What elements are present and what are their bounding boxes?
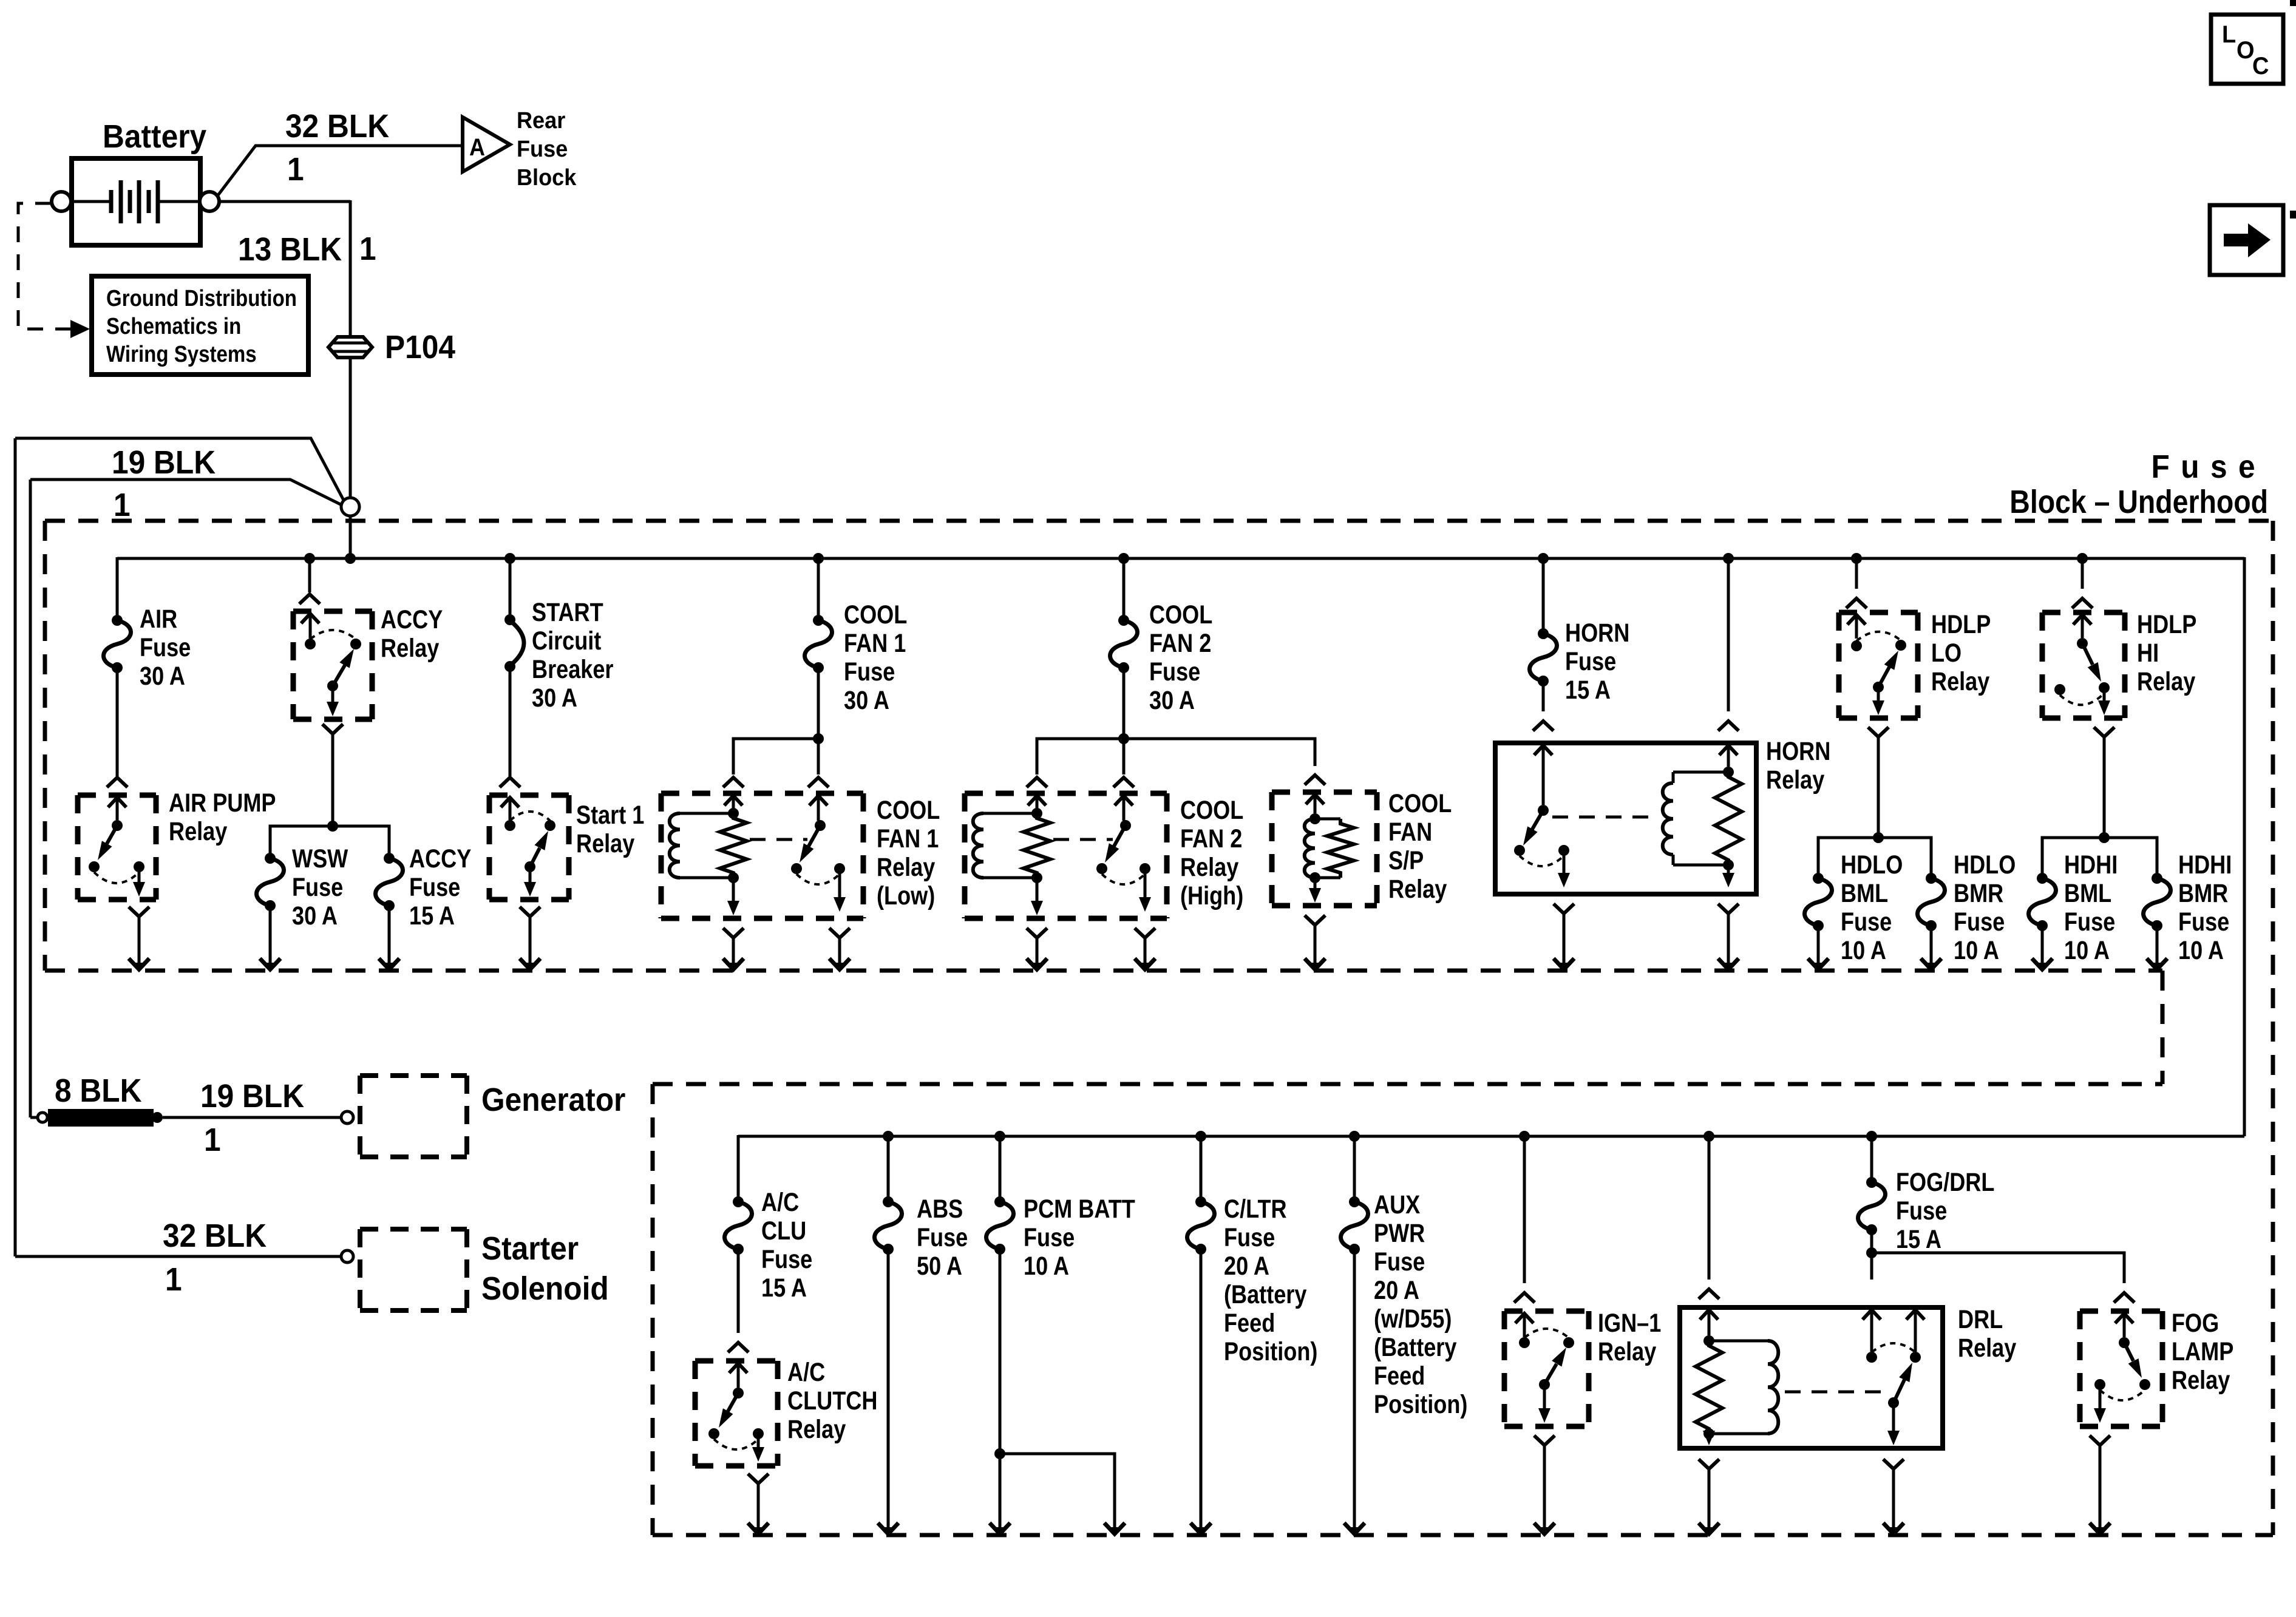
relay AIR PUMP (dashed box) bbox=[78, 795, 156, 900]
fuse HDLO BMR 10A bbox=[1917, 850, 2016, 965]
fuse COOL FAN 2 30A bbox=[1110, 600, 1212, 715]
ground distribution reference (dashed wire and arrow) bbox=[18, 203, 90, 338]
svg-text:20 A: 20 A bbox=[1374, 1276, 1419, 1305]
relay COOL FAN 1 Low (dashed box) bbox=[661, 793, 863, 918]
relay Start 1 contacts bbox=[501, 796, 644, 917]
wire A/C CLUTCH relay output bbox=[748, 1485, 769, 1534]
svg-text:30 A: 30 A bbox=[532, 683, 577, 713]
relay AIR PUMP contacts bbox=[89, 788, 276, 917]
svg-text:Fuse: Fuse bbox=[1149, 657, 1200, 686]
wire from P104 to splice bbox=[349, 358, 352, 498]
wire C/LTR fuse output bbox=[1190, 1249, 1211, 1534]
svg-text:(High): (High) bbox=[1180, 881, 1243, 910]
svg-text:Ground Distribution: Ground Distribution bbox=[106, 285, 297, 311]
svg-text:20 A: 20 A bbox=[1224, 1252, 1269, 1281]
svg-text:HDHI: HDHI bbox=[2064, 850, 2118, 880]
relay ACCY contacts bbox=[301, 605, 443, 734]
wire second run to left side bbox=[30, 480, 342, 1117]
svg-text:HDLO: HDLO bbox=[1954, 850, 2016, 880]
svg-text:8 BLK: 8 BLK bbox=[55, 1072, 142, 1108]
svg-text:30 A: 30 A bbox=[292, 901, 338, 931]
svg-text:Relay: Relay bbox=[2172, 1366, 2230, 1395]
wire PCM BATT output right bbox=[1104, 1469, 1125, 1534]
wire COOL FAN S/P relay output bbox=[1305, 926, 1325, 970]
svg-text:10 A: 10 A bbox=[2064, 936, 2110, 965]
wire HDHI BMR fuse output bbox=[2147, 926, 2167, 970]
svg-text:Relay: Relay bbox=[787, 1415, 846, 1444]
svg-text:HI: HI bbox=[2137, 639, 2159, 668]
svg-text:Block – Underhood: Block – Underhood bbox=[2009, 483, 2268, 520]
svg-text:(Battery: (Battery bbox=[1374, 1333, 1456, 1362]
relay IGN-1 contacts bbox=[1515, 1309, 1661, 1445]
svg-text:(Battery: (Battery bbox=[1224, 1280, 1306, 1309]
wire START breaker to Start 1 relay bbox=[500, 666, 520, 787]
connector ring starter bbox=[341, 1250, 353, 1263]
relay HDLP LO (dashed box) bbox=[1839, 612, 1918, 718]
relay COOL FAN S/P coil and resistor bbox=[1305, 789, 1452, 925]
svg-text:LAMP: LAMP bbox=[2172, 1337, 2233, 1366]
wire splice to fuse block bus bbox=[349, 515, 352, 558]
svg-text:HDLP: HDLP bbox=[2137, 610, 2196, 639]
svg-text:AIR: AIR bbox=[140, 605, 177, 634]
connector ring generator bbox=[341, 1111, 353, 1124]
relay IGN-1 (dashed box) bbox=[1504, 1311, 1589, 1426]
svg-text:START: START bbox=[532, 598, 603, 627]
svg-text:ACCY: ACCY bbox=[381, 605, 443, 634]
svg-text:COOL: COOL bbox=[1149, 600, 1212, 629]
svg-text:A/C: A/C bbox=[787, 1358, 825, 1387]
svg-text:Relay: Relay bbox=[1388, 875, 1447, 904]
wire bus2 to PCM BATT fuse bbox=[994, 1131, 1005, 1202]
svg-text:Fuse: Fuse bbox=[292, 873, 343, 902]
svg-text:AUX: AUX bbox=[1374, 1190, 1421, 1219]
wire bus to HORN fuse bbox=[1538, 553, 1549, 634]
svg-text:30 A: 30 A bbox=[140, 662, 185, 691]
wire bus to HORN relay coil bbox=[1718, 553, 1739, 731]
wire 13 BLK (battery feed) bbox=[219, 200, 376, 336]
wire DRL relay coil output bbox=[1699, 1470, 1719, 1534]
svg-text:ABS: ABS bbox=[917, 1195, 963, 1224]
wire HORN relay coil output bbox=[1718, 915, 1739, 970]
svg-text:(w/D55): (w/D55) bbox=[1374, 1304, 1452, 1334]
wire COOL FAN 2 relay switch output bbox=[1135, 939, 1155, 970]
svg-text:COOL: COOL bbox=[1388, 789, 1452, 818]
wire DRL relay switch output bbox=[1883, 1470, 1904, 1534]
LOC reference icon bbox=[2211, 15, 2283, 84]
svg-text:Relay: Relay bbox=[169, 817, 227, 846]
svg-text:FOG: FOG bbox=[2172, 1309, 2219, 1338]
splice 8 BLK (heavy wire) bbox=[48, 1072, 163, 1127]
svg-text:COOL: COOL bbox=[877, 796, 940, 825]
svg-text:Fuse: Fuse bbox=[1224, 1223, 1275, 1252]
svg-text:FAN 2: FAN 2 bbox=[1180, 824, 1242, 853]
svg-text:Feed: Feed bbox=[1374, 1361, 1425, 1391]
svg-text:C: C bbox=[2252, 53, 2269, 80]
svg-text:(Low): (Low) bbox=[877, 881, 935, 910]
svg-text:FAN: FAN bbox=[1388, 818, 1432, 847]
wire 32 BLK to rear fuse block bbox=[217, 107, 463, 196]
svg-text:COOL: COOL bbox=[844, 600, 907, 629]
svg-text:Fuse: Fuse bbox=[1565, 647, 1616, 676]
svg-text:Fuse: Fuse bbox=[1841, 907, 1892, 937]
svg-text:Fuse: Fuse bbox=[917, 1223, 968, 1252]
svg-text:P104: P104 bbox=[385, 328, 455, 365]
svg-text:ACCY: ACCY bbox=[409, 844, 471, 873]
wire HDLP HI relay to fuses bbox=[2042, 738, 2157, 878]
page edge tick top bbox=[2290, 0, 2296, 6]
wire 19 BLK upper run to left side bbox=[15, 438, 344, 1256]
svg-text:HORN: HORN bbox=[1565, 619, 1629, 648]
svg-text:30 A: 30 A bbox=[1149, 686, 1195, 715]
svg-text:15 A: 15 A bbox=[1896, 1225, 1941, 1254]
svg-text:HDHI: HDHI bbox=[2178, 850, 2232, 880]
svg-text:AIR PUMP: AIR PUMP bbox=[169, 788, 276, 818]
generator (dashed box) bbox=[360, 1076, 625, 1157]
svg-text:Starter: Starter bbox=[481, 1230, 579, 1266]
svg-text:BML: BML bbox=[2064, 879, 2111, 908]
svg-text:FOG/DRL: FOG/DRL bbox=[1896, 1168, 1994, 1197]
wire HORN relay switch output bbox=[1554, 915, 1574, 970]
svg-text:10 A: 10 A bbox=[1024, 1252, 1069, 1281]
wire bus to COOL FAN 1 fuse bbox=[813, 553, 824, 620]
svg-text:10 A: 10 A bbox=[2178, 936, 2224, 965]
svg-text:PWR: PWR bbox=[1374, 1219, 1425, 1248]
fuse HORN 15A bbox=[1529, 619, 1629, 705]
svg-text:BMR: BMR bbox=[1954, 879, 2003, 908]
connector A triangle to Rear Fuse Block bbox=[463, 107, 577, 190]
svg-text:15 A: 15 A bbox=[1565, 676, 1611, 705]
wire AIR PUMP relay output bbox=[129, 918, 149, 970]
relay Start 1 (dashed box) bbox=[489, 795, 569, 900]
relay COOL FAN 1 switch bbox=[750, 795, 940, 938]
inline connector P104 bbox=[328, 328, 455, 365]
svg-text:Battery: Battery bbox=[103, 118, 206, 154]
wire HORN fuse to HORN relay bbox=[1533, 681, 1554, 731]
fuse PCM BATT 10A bbox=[986, 1195, 1135, 1281]
wire bus2 to FOG/DRL fuse bbox=[1866, 1131, 1877, 1182]
wire PCM BATT output left bbox=[990, 1454, 1010, 1534]
wire HDLO BMR fuse output bbox=[1921, 926, 1941, 970]
relay COOL FAN 2 coil and resistor bbox=[973, 795, 1050, 938]
wire 19 BLK to generator bbox=[163, 1077, 340, 1158]
svg-text:10 A: 10 A bbox=[1954, 936, 1999, 965]
fuse FOG/DRL 15A bbox=[1858, 1168, 1994, 1254]
starter solenoid (dashed box) bbox=[360, 1229, 609, 1310]
wire WSW fuse output bbox=[260, 905, 280, 970]
svg-text:Fuse: Fuse bbox=[844, 657, 895, 686]
wire HDHI BML fuse output bbox=[2032, 926, 2053, 970]
wire HDLO BML fuse output bbox=[1808, 926, 1829, 970]
svg-text:1: 1 bbox=[204, 1121, 221, 1158]
wire 32 BLK to starter solenoid bbox=[15, 1217, 340, 1297]
svg-text:15 A: 15 A bbox=[761, 1273, 807, 1303]
splice S104 (open circle) bbox=[341, 498, 359, 516]
page edge tick right bbox=[2290, 211, 2296, 219]
wire COOL FAN 1 fuse to relay bbox=[723, 668, 829, 787]
svg-text:Position): Position) bbox=[1374, 1390, 1467, 1419]
relay A/C CLUTCH contacts bbox=[708, 1358, 877, 1483]
svg-text:13 BLK: 13 BLK bbox=[238, 231, 342, 267]
svg-text:Block: Block bbox=[517, 164, 577, 190]
relay HORN switch bbox=[1514, 744, 1656, 914]
relay COOL FAN 2 High (dashed box) bbox=[965, 793, 1167, 918]
svg-text:Generator: Generator bbox=[481, 1081, 625, 1117]
arrow reference icon bbox=[2210, 205, 2283, 275]
wire bus to AIR fuse bbox=[116, 557, 119, 620]
fuse COOL FAN 1 30A bbox=[804, 600, 907, 715]
bus wire lower section bbox=[738, 1135, 2244, 1138]
wire ABS fuse output bbox=[878, 1249, 898, 1534]
wire A/C CLU fuse to A/C CLUTCH relay bbox=[728, 1249, 749, 1352]
svg-text:Relay: Relay bbox=[1180, 853, 1238, 882]
svg-text:Fuse: Fuse bbox=[1896, 1196, 1947, 1225]
svg-text:Relay: Relay bbox=[1766, 765, 1824, 795]
wire PCM BATT fuse outputs bbox=[994, 1249, 1115, 1469]
svg-text:Breaker: Breaker bbox=[532, 655, 613, 684]
svg-text:1: 1 bbox=[165, 1261, 182, 1297]
svg-text:1: 1 bbox=[359, 230, 376, 266]
relay FOG LAMP contacts bbox=[2090, 1309, 2233, 1445]
svg-text:S/P: S/P bbox=[1388, 846, 1424, 875]
fuse AIR 30A bbox=[103, 605, 191, 691]
wire bus to HDLP HI relay bbox=[2072, 553, 2093, 608]
svg-text:Fuse: Fuse bbox=[517, 135, 568, 161]
fuse HDLO BML 10A bbox=[1804, 850, 1903, 965]
svg-text:Relay: Relay bbox=[2137, 667, 2195, 696]
wire COOL FAN 1 relay coil output bbox=[723, 939, 744, 970]
svg-text:Schematics in: Schematics in bbox=[106, 313, 241, 339]
relay A/C CLUTCH (dashed box) bbox=[695, 1361, 778, 1466]
svg-text:HDLO: HDLO bbox=[1841, 850, 1903, 880]
fuse ABS 50A bbox=[874, 1195, 968, 1281]
battery negative terminal bbox=[52, 192, 71, 211]
wire bus2 to DRL relay coil bbox=[1699, 1131, 1719, 1299]
svg-text:Fuse: Fuse bbox=[1374, 1247, 1425, 1276]
svg-text:BML: BML bbox=[1841, 879, 1888, 908]
relay COOL FAN 2 switch bbox=[1053, 795, 1243, 938]
svg-text:HDLP: HDLP bbox=[1931, 610, 1991, 639]
wire bus to ACCY relay bbox=[299, 553, 320, 604]
svg-text:10 A: 10 A bbox=[1841, 936, 1886, 965]
svg-text:Position): Position) bbox=[1224, 1337, 1317, 1366]
svg-text:Fuse: Fuse bbox=[761, 1245, 812, 1274]
svg-text:Fuse: Fuse bbox=[2151, 448, 2266, 484]
wire bus2 to ABS fuse bbox=[883, 1131, 894, 1202]
wire bus2 to A/C CLU fuse bbox=[737, 1135, 740, 1202]
svg-text:CLUTCH: CLUTCH bbox=[787, 1386, 877, 1415]
relay DRL (solid box) bbox=[1680, 1307, 1943, 1448]
wire Start 1 relay output bbox=[520, 918, 540, 970]
fuse C/LTR 20A bbox=[1187, 1195, 1317, 1366]
relay HDLP HI contacts bbox=[2054, 610, 2196, 737]
svg-text:A: A bbox=[469, 134, 485, 161]
wire right feed down to lower section bbox=[2243, 557, 2246, 1136]
svg-text:19 BLK: 19 BLK bbox=[112, 444, 216, 480]
battery positive terminal bbox=[200, 192, 219, 211]
svg-text:DRL: DRL bbox=[1958, 1305, 2003, 1334]
relay COOL FAN 1 coil and resistor bbox=[670, 795, 747, 938]
svg-text:CLU: CLU bbox=[761, 1216, 806, 1246]
svg-text:Solenoid: Solenoid bbox=[481, 1270, 609, 1306]
wire bus to COOL FAN 2 fuse bbox=[1118, 553, 1129, 620]
svg-text:WSW: WSW bbox=[292, 844, 348, 873]
svg-text:32 BLK: 32 BLK bbox=[163, 1217, 267, 1253]
relay HORN (solid box) bbox=[1495, 743, 1756, 894]
relay FOG LAMP (dashed box) bbox=[2080, 1311, 2162, 1426]
relay HORN coil and resistor bbox=[1663, 737, 1831, 914]
wire COOL FAN 1 relay switch output bbox=[829, 939, 850, 970]
relay HDLP HI (dashed box) bbox=[2042, 612, 2125, 718]
fuse block - underhood (dashed enclosure) bbox=[45, 521, 2273, 1535]
svg-text:Feed: Feed bbox=[1224, 1309, 1275, 1338]
svg-text:Fuse: Fuse bbox=[2064, 907, 2115, 937]
svg-text:19 BLK: 19 BLK bbox=[200, 1077, 304, 1114]
wire bus2 to AUX PWR fuse bbox=[1349, 1131, 1360, 1202]
circuit breaker START 30A bbox=[504, 598, 613, 713]
svg-text:30 A: 30 A bbox=[844, 686, 889, 715]
wire bus to START breaker bbox=[504, 553, 515, 620]
fuse A/C CLU 15A bbox=[724, 1188, 812, 1303]
svg-text:32 BLK: 32 BLK bbox=[285, 107, 389, 144]
svg-text:COOL: COOL bbox=[1180, 796, 1243, 825]
svg-text:Relay: Relay bbox=[576, 829, 634, 858]
ground distribution schematics box bbox=[92, 276, 308, 375]
bus wire (battery feed inside fuse block) bbox=[117, 553, 2244, 564]
svg-text:L: L bbox=[2222, 21, 2236, 48]
svg-text:FAN 2: FAN 2 bbox=[1149, 629, 1211, 658]
relay DRL coil and resistor bbox=[1696, 1309, 1778, 1469]
relay HDLP LO contacts bbox=[1847, 610, 1991, 737]
svg-text:A/C: A/C bbox=[761, 1188, 799, 1217]
svg-text:FAN 1: FAN 1 bbox=[844, 629, 906, 658]
svg-text:Start 1: Start 1 bbox=[576, 801, 644, 830]
svg-text:LO: LO bbox=[1931, 639, 1961, 668]
relay DRL switch bbox=[1785, 1305, 2016, 1469]
svg-text:Relay: Relay bbox=[877, 853, 935, 882]
svg-text:Relay: Relay bbox=[1598, 1337, 1656, 1366]
svg-text:FAN 1: FAN 1 bbox=[877, 824, 939, 853]
svg-text:IGN–1: IGN–1 bbox=[1598, 1309, 1661, 1338]
svg-text:C/LTR: C/LTR bbox=[1224, 1195, 1287, 1224]
fuse WSW 30A bbox=[256, 844, 348, 931]
svg-text:Wiring Systems: Wiring Systems bbox=[106, 341, 257, 367]
wire bus2 to C/LTR fuse bbox=[1195, 1131, 1206, 1202]
wire bus2 to IGN-1 relay bbox=[1514, 1131, 1535, 1303]
wire to 8 BLK splice bbox=[30, 1113, 47, 1122]
svg-text:Relay: Relay bbox=[381, 634, 439, 663]
fuse ACCY 15A bbox=[375, 844, 471, 931]
wire AIR fuse to AIR PUMP relay bbox=[107, 668, 127, 787]
svg-text:Fuse: Fuse bbox=[140, 633, 191, 662]
svg-text:Fuse: Fuse bbox=[1954, 907, 2005, 937]
svg-text:15 A: 15 A bbox=[409, 901, 455, 931]
wire bus to HDLP LO relay bbox=[1846, 553, 1867, 608]
fuse block lower section (dashed enclosure) bbox=[653, 1084, 2273, 1535]
svg-text:PCM BATT: PCM BATT bbox=[1024, 1195, 1135, 1224]
battery B1 bbox=[72, 118, 206, 245]
svg-text:Fuse: Fuse bbox=[2178, 907, 2229, 937]
svg-text:Circuit: Circuit bbox=[532, 626, 601, 656]
relay COOL FAN S/P (dashed box) bbox=[1272, 792, 1377, 906]
svg-text:Relay: Relay bbox=[1958, 1334, 2016, 1363]
fuse HDHI BML 10A bbox=[2028, 850, 2118, 965]
wire ACCY fuse output bbox=[379, 905, 399, 970]
svg-text:Rear: Rear bbox=[517, 107, 565, 133]
fuse HDHI BMR 10A bbox=[2143, 850, 2232, 965]
fuse block label bbox=[2009, 448, 2268, 520]
svg-text:Fuse: Fuse bbox=[409, 873, 460, 902]
svg-text:1: 1 bbox=[287, 151, 304, 187]
svg-text:1: 1 bbox=[114, 486, 131, 523]
relay ACCY (dashed box) bbox=[293, 611, 372, 719]
wire COOL FAN 2 relay coil output bbox=[1027, 939, 1047, 970]
svg-text:BMR: BMR bbox=[2178, 879, 2228, 908]
wire HDLP LO relay to fuses bbox=[1818, 738, 1931, 878]
svg-text:50 A: 50 A bbox=[917, 1252, 962, 1281]
wire COOL FAN 2 fuse to relays bbox=[1027, 668, 1325, 787]
fuse AUX PWR 20A bbox=[1340, 1190, 1467, 1419]
wire AUX PWR fuse output bbox=[1344, 1249, 1365, 1534]
svg-text:HORN: HORN bbox=[1766, 737, 1830, 766]
wire IGN-1 relay output bbox=[1534, 1446, 1555, 1534]
svg-text:Relay: Relay bbox=[1931, 667, 1989, 696]
wire FOG LAMP relay output bbox=[2090, 1446, 2110, 1534]
wire ACCY relay to WSW/ACCY fuses bbox=[270, 735, 389, 858]
wire FOG/DRL fuse to DRL and FOG LAMP relays bbox=[1866, 1230, 2135, 1303]
svg-text:Fuse: Fuse bbox=[1024, 1223, 1075, 1252]
